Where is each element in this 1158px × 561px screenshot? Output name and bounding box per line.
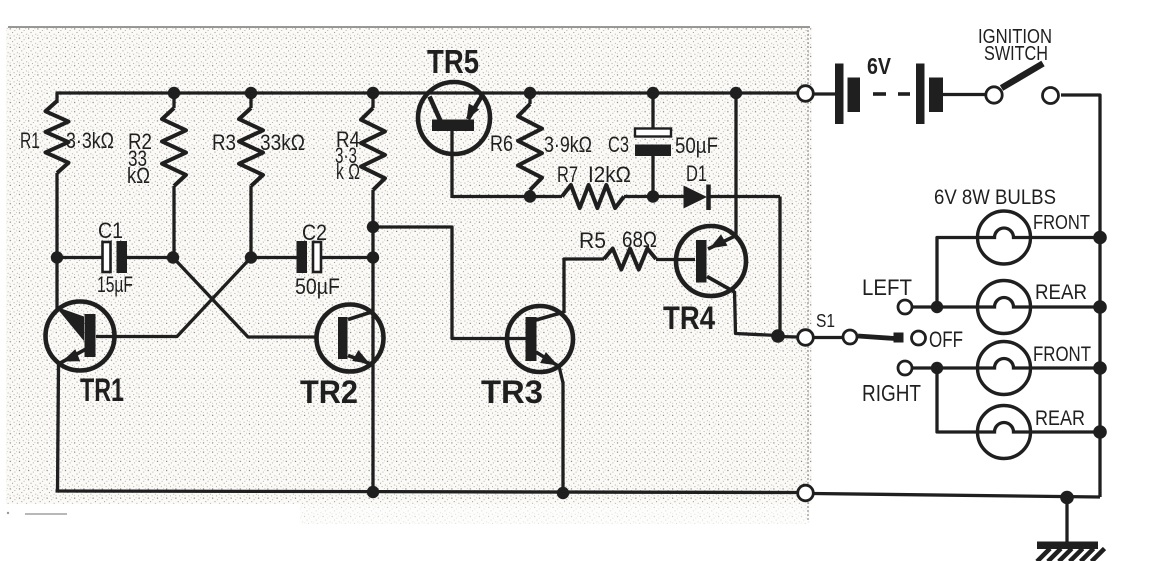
wire R5 to TR4 base [656,258,695,261]
lamp right-rear bulb [978,406,1031,459]
label R3 value 33kΩ [260,130,305,155]
capacitor C1 right plate [117,241,128,273]
transistor TR4 body [676,226,746,296]
wire R6 bottom [528,190,531,197]
wire bottom ground rail [56,491,798,493]
resistor R2 [162,108,186,186]
wire LEFT terminal to junction [912,305,937,308]
transistor TR3 emitter arrow [540,352,558,366]
label LEFT [862,275,912,300]
svg-text:OFF: OFF [929,327,963,352]
wire D1 to corner [710,195,780,198]
label TR2 [300,374,358,410]
node top rail TR4 [730,87,742,99]
switch ignition lever [1002,64,1044,89]
node left-front rail junction [1093,231,1107,245]
label FRONT (left) [1033,211,1090,234]
wire bottom rail right segment [813,494,1100,498]
label R5 [579,228,606,253]
transistor TR5 emitter arrow [467,104,480,120]
transistor TR3 emitter lead [536,352,559,367]
wire C1 left lead [57,256,103,259]
label C3 value 50uF [675,133,718,158]
wire right-rear bulb to rail [1031,430,1101,433]
label R6 value 3·9kΩ [544,132,592,157]
wire R2 bottom [172,186,175,257]
transistor TR1 base lead [96,335,115,338]
wire R7 to C3 node [624,195,654,198]
wire R1 to C1 node [55,173,58,259]
wire R4 node to TR3 branch [373,227,526,339]
label R4 value 3·3 [335,143,357,168]
transistor TR5 body [418,82,490,154]
wire D1 corner down to S1 node [778,197,781,336]
label R7 value 12kΩ [588,162,631,187]
svg-text:TR2: TR2 [300,374,358,410]
capacitor C2 right plate [313,242,321,272]
label R1 [20,128,40,153]
label REAR (left) [1035,281,1087,304]
node R1/C1 junction [51,251,63,263]
svg-text:3·3kΩ: 3·3kΩ [66,128,114,153]
svg-text:S1: S1 [816,311,835,331]
transistor TR1 base bar [85,314,96,357]
capacitor C3 bottom plate [635,145,671,157]
label R7 [557,162,578,187]
wire R2 top [172,93,175,108]
svg-text:C2: C2 [302,220,327,245]
switch ignition left terminal [986,87,1002,103]
label TR5 [427,43,479,80]
wire top rail ignition output segment [1061,95,1100,221]
label 6V 8W BULBS [934,186,1056,209]
wire C3 bottom lead [651,156,654,197]
wire top supply rail [56,91,798,94]
battery inter-cell dashed link [873,92,910,96]
label R4 [336,127,360,152]
wire TR3 collector up to R5 [564,259,604,313]
ground hatching [1037,549,1105,561]
transistor TR2 body [317,305,384,372]
label FRONT (right) [1033,343,1091,366]
wire top rail battery-to-ignition segment [813,92,835,95]
halftone shaded block (flasher unit area) [6,27,812,524]
transistor TR2 base bar [338,317,348,359]
transistor TR1 emitter lead [58,349,88,365]
resistor R5 [604,249,656,270]
label C2 [302,220,327,245]
switch S1 pivot terminal [843,330,857,344]
transistor TR4 collector lead [707,277,735,293]
svg-text:FRONT: FRONT [1033,211,1090,234]
label S1 [816,311,835,331]
wire R4/TR2 vertical branch [371,190,374,492]
wire RIGHT junction down to rear bulb [937,368,978,432]
lamp right-front bulb [978,342,1031,395]
transistor TR1 body [46,302,115,371]
wire R4 top [371,93,374,108]
svg-text:TR4: TR4 [663,300,715,336]
label OFF [929,327,963,352]
lamp left-rear bulb [978,281,1031,334]
wire TR1 emitter to bottom rail [58,364,59,492]
svg-text:D1: D1 [686,161,707,186]
transistor TR2 emitter arrow [352,350,370,364]
node LEFT junction [931,301,943,313]
transistor TR3 collector lead [536,312,564,320]
wire LEFT junction up to front bulb [937,238,978,308]
svg-text:3·9kΩ: 3·9kΩ [544,132,592,157]
wire S1 node to boundary [778,335,798,339]
transistor TR4 emitter arrow [710,234,728,248]
svg-text:REAR: REAR [1035,281,1087,304]
wire right rail bulbs segment [1098,221,1101,497]
wire R6 top [528,93,531,104]
svg-text:TR1: TR1 [80,372,124,408]
wire left-front bulb to rail [1031,236,1101,239]
svg-text:R5: R5 [579,228,606,253]
transistor TR5 base bar [432,120,474,132]
transistor TR2 emitter lead [348,356,371,365]
battery cell 1 long plate [835,64,844,125]
resistor R6 [518,104,542,190]
label R5 value 68 ohm [622,227,657,252]
svg-text:15µF: 15µF [97,272,133,297]
label R2 [128,129,152,154]
battery cell 2 short plate [929,78,943,113]
node top rail C3 [647,87,659,99]
label IGNITION [978,26,1052,48]
node boundary ring (battery feed) [798,86,814,102]
transistor TR1 emitter arrow [62,349,80,361]
svg-text:6V 8W BULBS: 6V 8W BULBS [934,186,1056,209]
wire RIGHT terminal to junction [912,366,937,369]
node S1 junction [771,329,785,343]
svg-text:REAR: REAR [1035,407,1085,430]
transistor TR3 base bar [526,317,537,361]
label C1 [98,218,123,243]
label D1 [686,161,707,186]
wire R3 top [249,93,252,108]
label TR4 [663,300,715,336]
wire LEFT junction to rear bulb [937,305,978,308]
svg-text:LEFT: LEFT [862,275,912,300]
svg-text:R6: R6 [490,131,513,156]
resistor R1 [46,101,69,173]
wire TR5 base to R6/R7 [452,195,562,198]
transistor TR4 emitter lead [708,237,734,250]
label REAR (right) [1035,407,1085,430]
label R2 value 33 [128,146,147,171]
label R2 value kΩ [127,163,150,188]
node top rail R6 [524,87,536,99]
wire C2 left lead [251,256,297,259]
capacitor C2 left plate [297,241,308,273]
label R3 [212,130,236,155]
resistor R7 [562,185,624,208]
switch ignition right terminal [1043,88,1059,104]
switch S1 lever [858,336,895,339]
wire TR4 collector to S1 node [735,291,779,336]
resistor R4 [361,108,385,190]
label C1 value 15uF [97,272,133,297]
node C1/R2 junction [167,251,179,263]
label TR3 [481,374,543,410]
svg-text:33kΩ: 33kΩ [260,130,305,155]
label R6 [490,131,513,156]
wire left rail (R1 branch) [55,93,58,103]
node R6/R7 junction [524,190,536,202]
svg-text:FRONT: FRONT [1033,343,1091,366]
transistor TR3 body [507,306,573,372]
svg-text:RIGHT: RIGHT [862,380,921,406]
svg-text:50µF: 50µF [675,133,718,158]
svg-text:TR5: TR5 [427,43,479,80]
label RIGHT [862,380,921,406]
diode D1 anode lead [653,195,684,198]
wire TR5 base stem [450,131,453,198]
wire C1 node to TR1 collector [55,257,58,311]
node top rail R4 [367,87,379,99]
battery cell 1 short plate [848,78,861,113]
svg-text:k Ω: k Ω [336,159,360,184]
switch S1 lever tip [894,333,904,343]
diode D1 cathode bar [706,185,711,211]
label C3 [608,132,629,157]
node boundary ring (S1 feed) [798,330,814,346]
svg-text:SWITCH: SWITCH [984,43,1048,65]
switch S1 LEFT terminal [898,300,912,314]
transistor TR2 collector lead [348,312,373,320]
node right-rear rail junction [1093,425,1107,439]
wire C3 top lead [651,93,654,129]
svg-text:C1: C1 [98,218,123,243]
node ground junction [1060,491,1074,505]
transistor TR1 collector wedge [56,307,85,342]
transistor TR5 collector lead [430,97,441,122]
label R4 value kΩ [336,159,360,184]
diode D1 triangle [684,186,708,209]
wire left-rear bulb to rail [1031,305,1101,308]
wire C2 right lead [321,256,373,259]
label C2 value 50uF [295,274,340,299]
svg-text:68Ω: 68Ω [622,227,657,252]
resistor R3 [239,108,263,186]
switch S1 RIGHT terminal [898,361,912,375]
label TR1 [80,372,124,408]
svg-text:6V: 6V [867,53,892,79]
ground bar [1037,542,1098,550]
wire battery to ignition switch [943,93,986,96]
node R4/TR3-branch junction [367,221,379,233]
wire C1 right lead [127,256,173,259]
svg-text:R3: R3 [212,130,236,155]
node C3/D1 junction [647,190,659,202]
battery cell 2 long plate [916,64,925,125]
svg-text:I2kΩ: I2kΩ [588,162,631,187]
wire TR3 emitter to bottom rail [559,366,563,493]
svg-text:kΩ: kΩ [127,163,150,188]
wire R3 bottom [249,186,252,257]
wire right-front bulb to rail [1031,366,1101,369]
node C2/R4 junction [367,251,379,263]
svg-text:50µF: 50µF [295,274,340,299]
node right-front rail junction [1093,361,1107,375]
svg-text:R7: R7 [557,162,578,187]
svg-text:TR3: TR3 [481,374,543,410]
label R1 value 3·3kΩ [66,128,114,153]
label SWITCH [984,43,1048,65]
wire RIGHT junction to front bulb [937,366,978,369]
svg-text:R1: R1 [20,128,40,153]
lamp left-front bulb [978,211,1031,264]
wire C1 node to TR2 base diagonal [173,258,317,338]
wire ground stem [1065,498,1068,544]
wire top rail to TR4 emitter [734,93,737,237]
node boundary ring (bottom rail) [798,485,814,501]
node TR3 emitter on bottom rail [557,487,569,499]
node R3 junction [245,251,257,263]
capacitor C1 left plate [103,242,111,272]
capacitor C3 top plate [635,129,671,137]
switch S1 OFF terminal [912,331,926,345]
wire R3 node to TR1 base diagonal [113,258,251,337]
wire boundary ring to S1 pivot [814,336,844,339]
node RIGHT junction [931,362,943,374]
transistor TR4 base bar [696,240,707,283]
node top rail R2 [168,87,180,99]
svg-text:C3: C3 [608,132,629,157]
node TR2 emitter on bottom rail [367,486,379,498]
transistor TR5 emitter lead [468,97,482,120]
node left-rear rail junction [1093,300,1107,314]
node top rail R3 [245,87,257,99]
label battery 6V [867,53,892,79]
